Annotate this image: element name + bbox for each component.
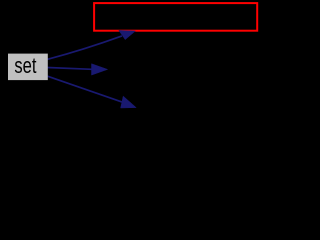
svg-text:set: set [14, 54, 37, 79]
wire: edge set -> bottom node [48, 76, 122, 102]
node: red-bordered target box (empty) [94, 3, 257, 31]
arrowhead of middle edge [92, 64, 108, 75]
node set: grey filled box [8, 54, 48, 81]
wire: edge set -> middle node [48, 68, 92, 70]
arrowhead of top edge [119, 30, 136, 39]
wire: edge set -> top node [48, 36, 123, 59]
arrowhead of bottom edge [121, 96, 137, 108]
